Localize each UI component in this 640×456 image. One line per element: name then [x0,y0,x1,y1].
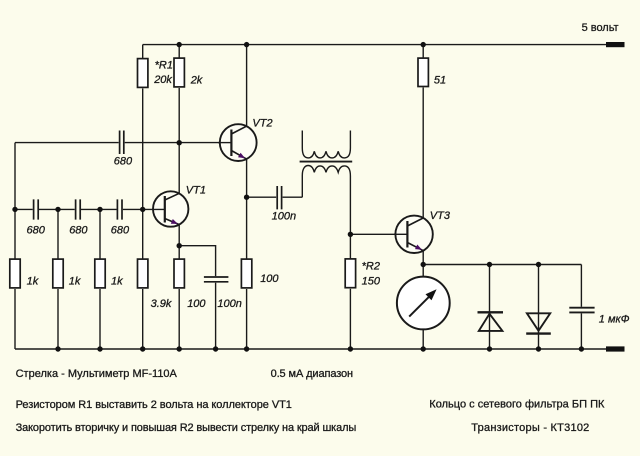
node cap row [12,207,17,212]
wire meter bottom [422,329,424,349]
wire VD2 lead [538,265,540,350]
terminal bottom-right bar [606,346,625,351]
svg-text:1k: 1k [27,275,39,287]
terminal +5V bar [606,42,625,47]
svg-text:680: 680 [114,156,133,168]
svg-text:100: 100 [187,298,206,310]
wire 51 column [422,45,424,58]
capacitor 1uF lead top [580,265,582,307]
node 680 wire / 2k [177,140,182,145]
wire bottom rail [15,348,606,350]
svg-text:VT3: VT3 [430,210,451,222]
wire 1k column a [14,209,16,258]
svg-text:1k: 1k [111,275,123,287]
wire to rail [246,289,248,349]
VT2 emitter arrow [238,153,245,159]
svg-text:1k: 1k [69,275,81,287]
wire R1 column [142,45,144,58]
wire cap to VT2 base [125,142,232,144]
capacitor 680 b plates [76,199,81,219]
svg-text:*R2: *R2 [362,260,380,272]
svg-text:0.5 мА диапазон: 0.5 мА диапазон [271,368,354,380]
svg-text:Стрелка - Мультиметр MF-110A: Стрелка - Мультиметр MF-110A [16,368,178,380]
wire VT1 emitter [178,225,180,246]
transformer primary winding [302,131,350,158]
resistor 100 emitter VT1 [174,259,184,288]
svg-text:680: 680 [111,224,130,236]
wire 2k column top [178,45,180,58]
node VT3 base [348,232,353,237]
VT1 emitter arrow [171,219,178,224]
meter needle [409,296,429,316]
node VT3 emitter [421,262,426,267]
svg-text:Резистором R1 выставить 2 воль: Резистором R1 выставить 2 вольта на колл… [16,399,292,411]
svg-text:Кольцо с сетевого фильтра БП П: Кольцо с сетевого фильтра БП ПК [429,398,605,410]
wire VT2 emitter node down [246,197,248,258]
resistor 51 [418,58,428,86]
transformer core [300,161,353,163]
svg-text:100n: 100n [217,298,241,310]
meter PA1 [397,277,450,330]
svg-text:51: 51 [434,74,446,86]
svg-text:Транзисторы - КТ3102: Транзисторы - КТ3102 [471,422,589,434]
diode VD2 cathode bar [526,332,551,334]
wire 1k column b [57,209,59,258]
wire 1k column c [99,209,101,258]
wire left column down [14,143,16,210]
wire VT1 base node to 3.9k [142,209,144,258]
wire VT1 base [143,208,165,210]
svg-text:3.9k: 3.9k [151,298,172,310]
diode VD1 cathode bar [478,311,504,313]
resistor R2 [345,259,355,288]
wire node to VT1 collector [178,143,180,194]
wire 51 to VT3 collector [422,88,424,218]
wire VT3 emitter [422,251,424,265]
svg-text:5 вольт: 5 вольт [582,22,619,34]
capacitor 100n coupling plates [277,186,281,209]
wire 100 to rail [178,289,180,349]
capacitor 680 top left wire [15,142,119,144]
svg-text:Закоротить вторичку и повышая: Закоротить вторичку и повышая R2 вывести… [16,422,357,434]
wire emitter node to 100n [179,246,215,276]
wire coupling row [247,196,277,198]
capacitor 1uF plates [569,308,594,313]
wire VT3 base row [350,233,407,235]
svg-text:*R1: *R1 [155,59,173,71]
wire cap row [15,208,143,210]
capacitor 680 a plates [34,199,39,219]
svg-text:VT1: VT1 [186,185,206,197]
resistor 1k a [10,259,20,288]
wire R1 to VT1 base node [142,89,144,210]
wire 1k b to rail [57,289,59,349]
wire 100n to rail [215,283,217,349]
transistor VT1 [153,191,188,226]
capacitor 100n bottom plates [204,277,229,282]
VT3 emitter arrow [415,245,422,250]
capacitor 680 top plates [120,131,124,155]
wire emitter row right [423,264,581,266]
capacitor 1uF lead bottom [580,313,582,349]
node dots top rail [12,42,584,352]
wire VT2 collector [246,45,248,126]
wire 1k a to rail [14,289,16,349]
meter needle head [426,289,437,300]
wire 3.9k to rail [142,289,144,349]
diode VD2 triangle [527,313,550,331]
svg-text:2k: 2k [190,74,203,86]
diode VD1 triangle [479,314,503,331]
wire 2k to node [178,88,180,143]
resistor 1k b [53,259,63,288]
resistor 2k [174,58,184,87]
svg-text:100: 100 [260,273,279,285]
wire top rail +5V [143,44,606,46]
node VT1 emitter [177,243,182,248]
svg-text:680: 680 [27,224,46,236]
wire coupling cap to transformer [283,196,303,198]
wire VT1 emitter node to 100 [178,246,180,259]
resistor R1 [138,59,148,88]
svg-text:VT2: VT2 [252,117,272,129]
wire VD1 lead [489,265,491,350]
svg-text:680: 680 [69,224,88,236]
node dots bottom rail [55,346,60,351]
transformer secondary winding [302,166,350,235]
svg-text:1 мкФ: 1 мкФ [599,313,630,325]
resistor 100 emitter VT2 [241,259,251,288]
transistor VT2 [218,124,257,161]
wire R2 to rail [349,289,351,349]
transistor VT3 [394,216,433,253]
node VT2 emitter [244,195,249,200]
wire 1k c to rail [99,289,101,349]
wire VT2 emitter [246,159,248,197]
resistor 1k c [95,259,105,288]
capacitor 680 c plates [117,199,122,219]
resistor 3.9k [138,259,148,288]
svg-text:20k: 20k [153,74,172,86]
svg-text:100n: 100n [272,211,296,223]
svg-text:150: 150 [362,276,381,288]
wire meter top [422,265,424,277]
wire R2 column [349,234,351,258]
